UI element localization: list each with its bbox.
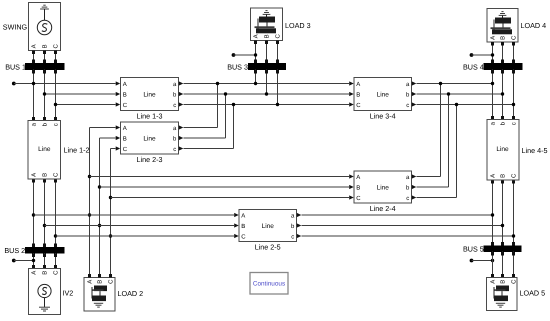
svg-text:B: B (42, 271, 49, 275)
wire Line2-5 out b to BUS5 rail (302, 225, 503, 227)
svg-text:C: C (53, 172, 60, 177)
node BUS1 tap (12, 82, 16, 86)
wire Line2-3 input B / LOAD2 phase B vertical (98, 138, 101, 278)
junction BUS2 tap on phase A (32, 259, 35, 262)
wire BUS2 to Line 2-5 input A rail (34, 214, 235, 216)
svg-text:A: A (490, 280, 497, 284)
svg-text:Line 4-5: Line 4-5 (522, 146, 548, 155)
junction BUS1-A rail A (32, 82, 35, 85)
svg-text:C: C (241, 233, 246, 240)
svg-text:B: B (241, 223, 245, 230)
wire BUS4 phase C down to Line 4-5 (512, 70, 515, 120)
svg-text:Line 2-5: Line 2-5 (255, 243, 281, 252)
block Line 2-5 (234, 210, 301, 242)
generator IV2 (29, 269, 61, 315)
svg-text:B: B (356, 91, 360, 98)
svg-text:A: A (253, 34, 260, 38)
junction LOAD2-A on Line 2-5 rail A (88, 213, 91, 216)
svg-text:c: c (512, 122, 518, 125)
svg-text:B: B (123, 91, 127, 98)
wire Line4-5 phase A down to BUS5 (491, 180, 494, 246)
svg-text:B: B (500, 36, 507, 40)
block Line 2-4 (349, 171, 416, 203)
wire rail to Line 2-4 input A (90, 176, 350, 178)
svg-text:c: c (406, 103, 409, 109)
junction BUS4-B rail b (501, 92, 504, 95)
wire Line2-5 out a to BUS5 rail (302, 214, 493, 216)
wire BUS1 phase C to Line 1-3 input C (56, 104, 116, 106)
wire LOAD4 phase C to BUS4 (512, 42, 515, 64)
svg-text:LOAD 3: LOAD 3 (285, 21, 311, 30)
svg-text:SWING: SWING (3, 22, 28, 31)
svg-text:A: A (31, 271, 38, 275)
bus bar BUS 3 (249, 64, 286, 70)
wire BUS2 phase A down to IV2 (32, 253, 35, 269)
wire BUS2 to Line 2-5 input B rail (45, 225, 235, 227)
svg-text:B: B (264, 34, 271, 38)
junction riser 2-4a on rail a (439, 82, 442, 85)
svg-text:A: A (241, 212, 245, 219)
wire to Line 2-3 input C (111, 148, 116, 150)
junction BUS1-B rail B (43, 92, 46, 95)
svg-text:Line: Line (377, 184, 390, 191)
junction LOAD2-B on Line 2-5 rail B (98, 224, 101, 227)
svg-text:c: c (291, 234, 294, 240)
wire Line1-2 phase C down to BUS2 (54, 179, 57, 248)
block Line 4-5 (487, 120, 519, 181)
svg-text:B: B (123, 135, 127, 142)
wire to Line 2-3 input B (100, 137, 116, 139)
svg-text:C: C (53, 270, 60, 275)
wire Line3-4 out a to BUS4 (rail) (417, 83, 493, 85)
svg-text:LOAD 4: LOAD 4 (521, 21, 547, 30)
junction LOAD2-C rail to Line 2-4 C (109, 196, 112, 199)
wire rail to Line 2-4 input B (100, 186, 350, 188)
wire Line1-3 out b to Line3-4 in B (rail b) (184, 93, 350, 95)
junction riser b on rail b (224, 92, 227, 95)
bus bar BUS 5 (484, 246, 521, 252)
svg-text:B: B (42, 173, 49, 177)
svg-text:C: C (108, 279, 115, 284)
wire Line2-3 out c riser (184, 105, 234, 149)
junction BUS3-A rail a (254, 82, 257, 85)
wire Line2-3 input A / LOAD2 phase A vertical (88, 128, 91, 278)
wire BUS4 phase B down to Line 4-5 (501, 70, 504, 120)
junction riser 2-4c on rail c (455, 103, 458, 106)
wire BUS3 phase A down to rail a (254, 70, 257, 84)
wire BUS3 phase C down to rail c (276, 70, 279, 105)
junction Line4-5 A on Line2-5 rail a (491, 213, 494, 216)
wire Line1-3 out c to Line3-4 in C (rail c) (184, 104, 350, 106)
svg-text:B: B (42, 44, 49, 48)
wire Line2-3 out b riser (184, 94, 226, 138)
bus bar BUS 4 (484, 64, 522, 70)
bus bar BUS 2 (26, 248, 65, 254)
junction riser a on rail a (216, 82, 219, 85)
svg-text:C: C (275, 33, 282, 38)
wire BUS4 tap (472, 54, 493, 56)
junction LOAD2-C on Line 2-5 rail C (109, 234, 112, 237)
wire BUS3 phase B down to rail b (265, 70, 268, 95)
svg-text:c: c (406, 196, 409, 202)
wire Line1-3 out a to Line3-4 in A (rail a) (184, 83, 350, 85)
wire LOAD3 phase B to BUS3 (265, 41, 268, 64)
junction BUS3 tap on phase A (254, 53, 257, 56)
svg-text:LOAD 5: LOAD 5 (520, 288, 546, 297)
svg-text:C: C (356, 195, 361, 202)
svg-text:BUS 5: BUS 5 (463, 244, 484, 253)
svg-text:C: C (511, 173, 518, 178)
wire Line2-5 out c to BUS5 rail (302, 235, 514, 237)
generator SWING (29, 3, 61, 51)
block LOAD 3 (251, 8, 283, 41)
svg-text:c: c (54, 123, 60, 126)
svg-text:Line 2-4: Line 2-4 (370, 204, 396, 213)
svg-text:IV2: IV2 (63, 288, 74, 297)
wire Line3-4 out b to BUS4 (rail) (417, 93, 503, 95)
svg-text:B: B (500, 174, 507, 178)
wire Line2-3 input C / LOAD2 phase C vertical (109, 149, 112, 278)
wire BUS5 phase B down to LOAD5 (501, 252, 504, 278)
wire BUS2 phase C down to IV2 (54, 253, 57, 269)
junction LOAD2-B rail to Line 2-4 B (98, 185, 101, 188)
wire Line2-3 out a riser (184, 84, 218, 128)
svg-text:A: A (490, 36, 497, 40)
wire BUS1 phase B down to Line 1-2 (43, 70, 46, 121)
wire BUS1 phase B to Line 1-3 input B (45, 93, 116, 95)
junction BUS2-A to Line 2-5 rail A (32, 213, 35, 216)
svg-text:A: A (31, 173, 38, 177)
svg-text:B: B (500, 280, 507, 284)
svg-text:Line: Line (143, 135, 156, 142)
svg-text:A: A (31, 44, 38, 48)
junction BUS4-C rail c (512, 103, 515, 106)
wire BUS2 tap (14, 260, 34, 262)
block Line 1-2 (28, 121, 61, 180)
svg-text:Line: Line (496, 146, 509, 153)
node BUS4 tap (470, 53, 474, 57)
node BUS5 tap (470, 259, 474, 263)
junction Line4-5 B on Line2-5 rail b (501, 224, 504, 227)
node BUS3 tap (232, 53, 236, 57)
svg-text:A: A (490, 174, 497, 178)
wire SWING phase C to BUS1 (54, 51, 57, 64)
block LOAD 2 (84, 278, 115, 312)
svg-text:Line: Line (143, 91, 156, 98)
block Line 1-3 (116, 78, 184, 111)
wire Line4-5 phase C down to BUS5 (512, 180, 515, 246)
wire LOAD3 phase C to BUS3 (276, 41, 279, 64)
svg-text:LOAD 2: LOAD 2 (118, 289, 144, 298)
svg-text:Line: Line (262, 223, 275, 230)
junction riser 2-4b on rail b (447, 92, 450, 95)
bus bar BUS 1 (26, 64, 65, 70)
svg-text:A: A (356, 81, 360, 88)
wire SWING phase B to BUS1 (43, 51, 46, 64)
junction BUS2-C to Line 2-5 rail C (54, 234, 57, 237)
wire BUS1 tap to Line 1-3 input A rail (14, 83, 116, 85)
block Line 3-4 (349, 78, 416, 111)
wire LOAD4 phase B to BUS4 (501, 42, 504, 64)
svg-text:Line 1-3: Line 1-3 (137, 112, 163, 121)
junction BUS1-C rail C (54, 103, 57, 106)
svg-text:Line 1-2: Line 1-2 (64, 145, 90, 154)
svg-text:c: c (173, 103, 176, 109)
junction BUS3-C rail c (276, 103, 279, 106)
svg-text:c: c (173, 147, 176, 153)
svg-text:Line: Line (38, 146, 51, 153)
junction BUS5 tap on phase A (491, 259, 494, 262)
block LOAD 5 (487, 278, 518, 311)
wire Line2-4 out c riser (417, 105, 457, 198)
svg-text:Line 2-3: Line 2-3 (137, 155, 163, 164)
svg-text:A: A (356, 174, 360, 181)
wire Line1-2 phase B down to BUS2 (43, 179, 46, 248)
wire BUS1 phase C down to Line 1-2 (54, 70, 57, 121)
svg-text:C: C (53, 43, 60, 48)
node BUS2 tap (12, 259, 16, 263)
wire LOAD3 phase A to BUS3 (254, 41, 257, 64)
wire Line4-5 phase B down to BUS5 (501, 180, 504, 246)
svg-text:Continuous: Continuous (253, 281, 285, 288)
svg-text:C: C (511, 279, 518, 284)
svg-text:B: B (97, 280, 104, 284)
wire to Line 2-3 input A (90, 127, 116, 129)
svg-text:BUS 4: BUS 4 (463, 62, 484, 71)
svg-text:B: B (356, 184, 360, 191)
wire BUS5 phase A down to LOAD5 (491, 252, 494, 278)
junction BUS2-B to Line 2-5 rail B (43, 224, 46, 227)
junction BUS4 tap on phase A (491, 53, 494, 56)
wire BUS5 tap (472, 260, 493, 262)
junction LOAD2-A rail to Line 2-4 A (88, 175, 91, 178)
block Line 2-3 (116, 122, 184, 154)
junction BUS3-B rail b (265, 92, 268, 95)
wire Line2-4 out a riser (417, 84, 441, 177)
svg-text:C: C (123, 146, 128, 153)
svg-text:BUS 2: BUS 2 (4, 246, 25, 255)
junction Line4-5 C on Line2-5 rail c (512, 234, 515, 237)
wire SWING phase A to BUS1 (32, 51, 35, 64)
junction BUS4-A rail a (491, 82, 494, 85)
wire Line2-4 out b riser (417, 94, 449, 187)
svg-text:A: A (123, 125, 127, 132)
svg-text:A: A (87, 280, 94, 284)
wire rail to Line 2-4 input C (111, 197, 350, 199)
svg-text:BUS 3: BUS 3 (227, 62, 248, 71)
svg-text:C: C (356, 102, 361, 109)
wire BUS1 phase A down to Line 1-2 (32, 70, 35, 121)
svg-text:Line 3-4: Line 3-4 (370, 112, 396, 121)
wire Line1-2 phase A down to BUS2 (32, 179, 35, 248)
wire LOAD4 phase A to BUS4 (491, 42, 494, 64)
junction riser c on rail c (232, 103, 235, 106)
block LOAD 4 (487, 9, 518, 43)
svg-text:A: A (123, 81, 127, 88)
wire BUS3 tap (234, 54, 256, 56)
wire BUS5 phase C down to LOAD5 (512, 252, 515, 278)
wire BUS2 phase B down to IV2 (43, 253, 46, 269)
svg-text:C: C (123, 102, 128, 109)
wire Line3-4 out c to BUS4 (rail) (417, 104, 514, 106)
svg-text:Line: Line (377, 91, 390, 98)
wire BUS2 to Line 2-5 input C rail (56, 235, 235, 237)
svg-text:C: C (511, 35, 518, 40)
svg-text:BUS 1: BUS 1 (5, 62, 26, 71)
wire BUS4 phase A down to Line 4-5 (491, 70, 494, 120)
block Continuous (powergui) (250, 273, 288, 295)
